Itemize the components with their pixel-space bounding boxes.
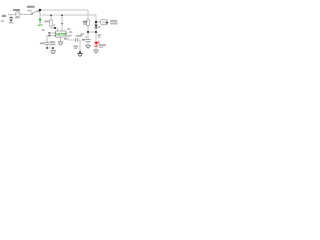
junction pin7 node bbox=[54, 27, 56, 29]
wire pin8 to rail bbox=[61, 15, 63, 31]
fuse F1 bbox=[15, 12, 20, 17]
ground C3 bbox=[85, 45, 91, 48]
pin label top right bbox=[67, 28, 70, 30]
wire net flag drop bbox=[39, 10, 41, 19]
label C1 value bbox=[50, 41, 55, 43]
LED LED1 bbox=[94, 41, 100, 47]
pin numbers left bbox=[48, 32, 50, 34]
label above LED row2 bbox=[98, 37, 101, 39]
wire C1 bottom bbox=[47, 45, 53, 51]
wire R3 to node bbox=[87, 26, 89, 40]
wire LED to ground bbox=[95, 46, 97, 49]
label switch name bbox=[28, 10, 32, 12]
ground pin1 bbox=[58, 42, 64, 45]
junction at rail start bbox=[39, 9, 41, 11]
label R3 bbox=[83, 21, 87, 23]
wire node to C3 bbox=[87, 42, 89, 45]
label fuse value bbox=[15, 17, 20, 19]
wire R1 top bbox=[50, 15, 52, 20]
label left of pin6 wire bbox=[42, 29, 45, 31]
label R1 bbox=[44, 21, 49, 23]
label below 9V bbox=[1, 20, 4, 22]
junction pin8 rail2 bbox=[61, 14, 63, 16]
junction h32 left bbox=[87, 31, 89, 33]
ground LED bbox=[93, 50, 99, 53]
pin number 2 inside bbox=[55, 35, 56, 36]
label connector line2 bbox=[110, 23, 118, 25]
label 9V bbox=[2, 15, 6, 17]
green net flag stem bbox=[39, 21, 41, 23]
green net flag bbox=[39, 19, 42, 22]
connector J1 bbox=[101, 20, 109, 25]
wire node link h32 bbox=[88, 31, 96, 33]
capacitor C2 bbox=[75, 38, 78, 42]
wire VCC rail top bbox=[40, 9, 88, 11]
label C2 left row2 bbox=[74, 48, 78, 50]
pin number 6 inside bbox=[55, 33, 56, 34]
label C2 left bbox=[73, 45, 78, 47]
pin label bottom bbox=[64, 38, 66, 40]
junction connector tap bbox=[95, 21, 97, 23]
wire fuse to switch bbox=[20, 14, 31, 16]
pin numbers left lower bbox=[48, 35, 50, 37]
label LED1 bbox=[99, 44, 106, 46]
wire diode to node bbox=[95, 28, 97, 41]
label above LED bbox=[98, 34, 102, 36]
label Switch bbox=[27, 6, 35, 8]
capacitor C3 bbox=[86, 39, 91, 42]
junction C2 ground bbox=[79, 51, 81, 53]
resistor R3 bbox=[87, 20, 90, 26]
tick on pin8 wire bbox=[61, 23, 63, 24]
supply arrow 9V bbox=[9, 18, 12, 22]
wire pin1 ground bbox=[60, 37, 62, 42]
label left of node bbox=[80, 33, 84, 35]
label under arrow bbox=[9, 22, 14, 24]
wire rail to R3 bbox=[87, 10, 89, 20]
wire R1 bottom to pin7 bbox=[51, 26, 58, 31]
wire pin5 stub right bbox=[66, 32, 68, 34]
wire to connector bbox=[96, 21, 101, 23]
pin label right lower bbox=[69, 35, 72, 37]
label Fuse bbox=[13, 9, 20, 11]
wire 9V feed bbox=[8, 14, 16, 16]
op IC U1 NE555 bbox=[56, 31, 67, 37]
resistor R1 bbox=[50, 20, 53, 26]
wire VCC rail 2 bbox=[40, 14, 96, 16]
label D1 bbox=[98, 26, 101, 27]
label C1 value 2 bbox=[50, 44, 55, 46]
capacitor C1 bbox=[45, 42, 50, 45]
junction R1 rail2 bbox=[50, 14, 52, 16]
label C2 top bbox=[76, 35, 83, 37]
label R3 value bbox=[83, 23, 87, 25]
diode D1 bbox=[95, 25, 98, 29]
wire rail2 drop right bbox=[95, 15, 97, 24]
junction h32 right bbox=[95, 31, 97, 33]
junction C1 foot right bbox=[52, 47, 54, 49]
wire C2 to ground bbox=[78, 40, 80, 53]
wire pin6 stub bbox=[50, 33, 56, 36]
wire pin5 to C2 bbox=[66, 36, 75, 41]
pin label right upper bbox=[69, 31, 72, 33]
label C3 bbox=[82, 39, 85, 41]
junction C1 foot left bbox=[46, 47, 48, 49]
label LED value bbox=[99, 46, 103, 48]
wire pin2 stub bbox=[47, 36, 56, 43]
ground C2 bbox=[77, 53, 83, 56]
label C1 bbox=[40, 42, 45, 44]
svg-text:+9V: +9V bbox=[37, 23, 44, 27]
polarity mark C3 bbox=[85, 36, 87, 37]
label R1 value bbox=[52, 25, 55, 27]
label connector line1 bbox=[110, 20, 117, 22]
svg-text:NE555: NE555 bbox=[56, 32, 66, 36]
switch S1 bbox=[31, 10, 40, 14]
wire drop to supply arrow bbox=[10, 15, 12, 18]
ground C1 bbox=[50, 51, 56, 54]
